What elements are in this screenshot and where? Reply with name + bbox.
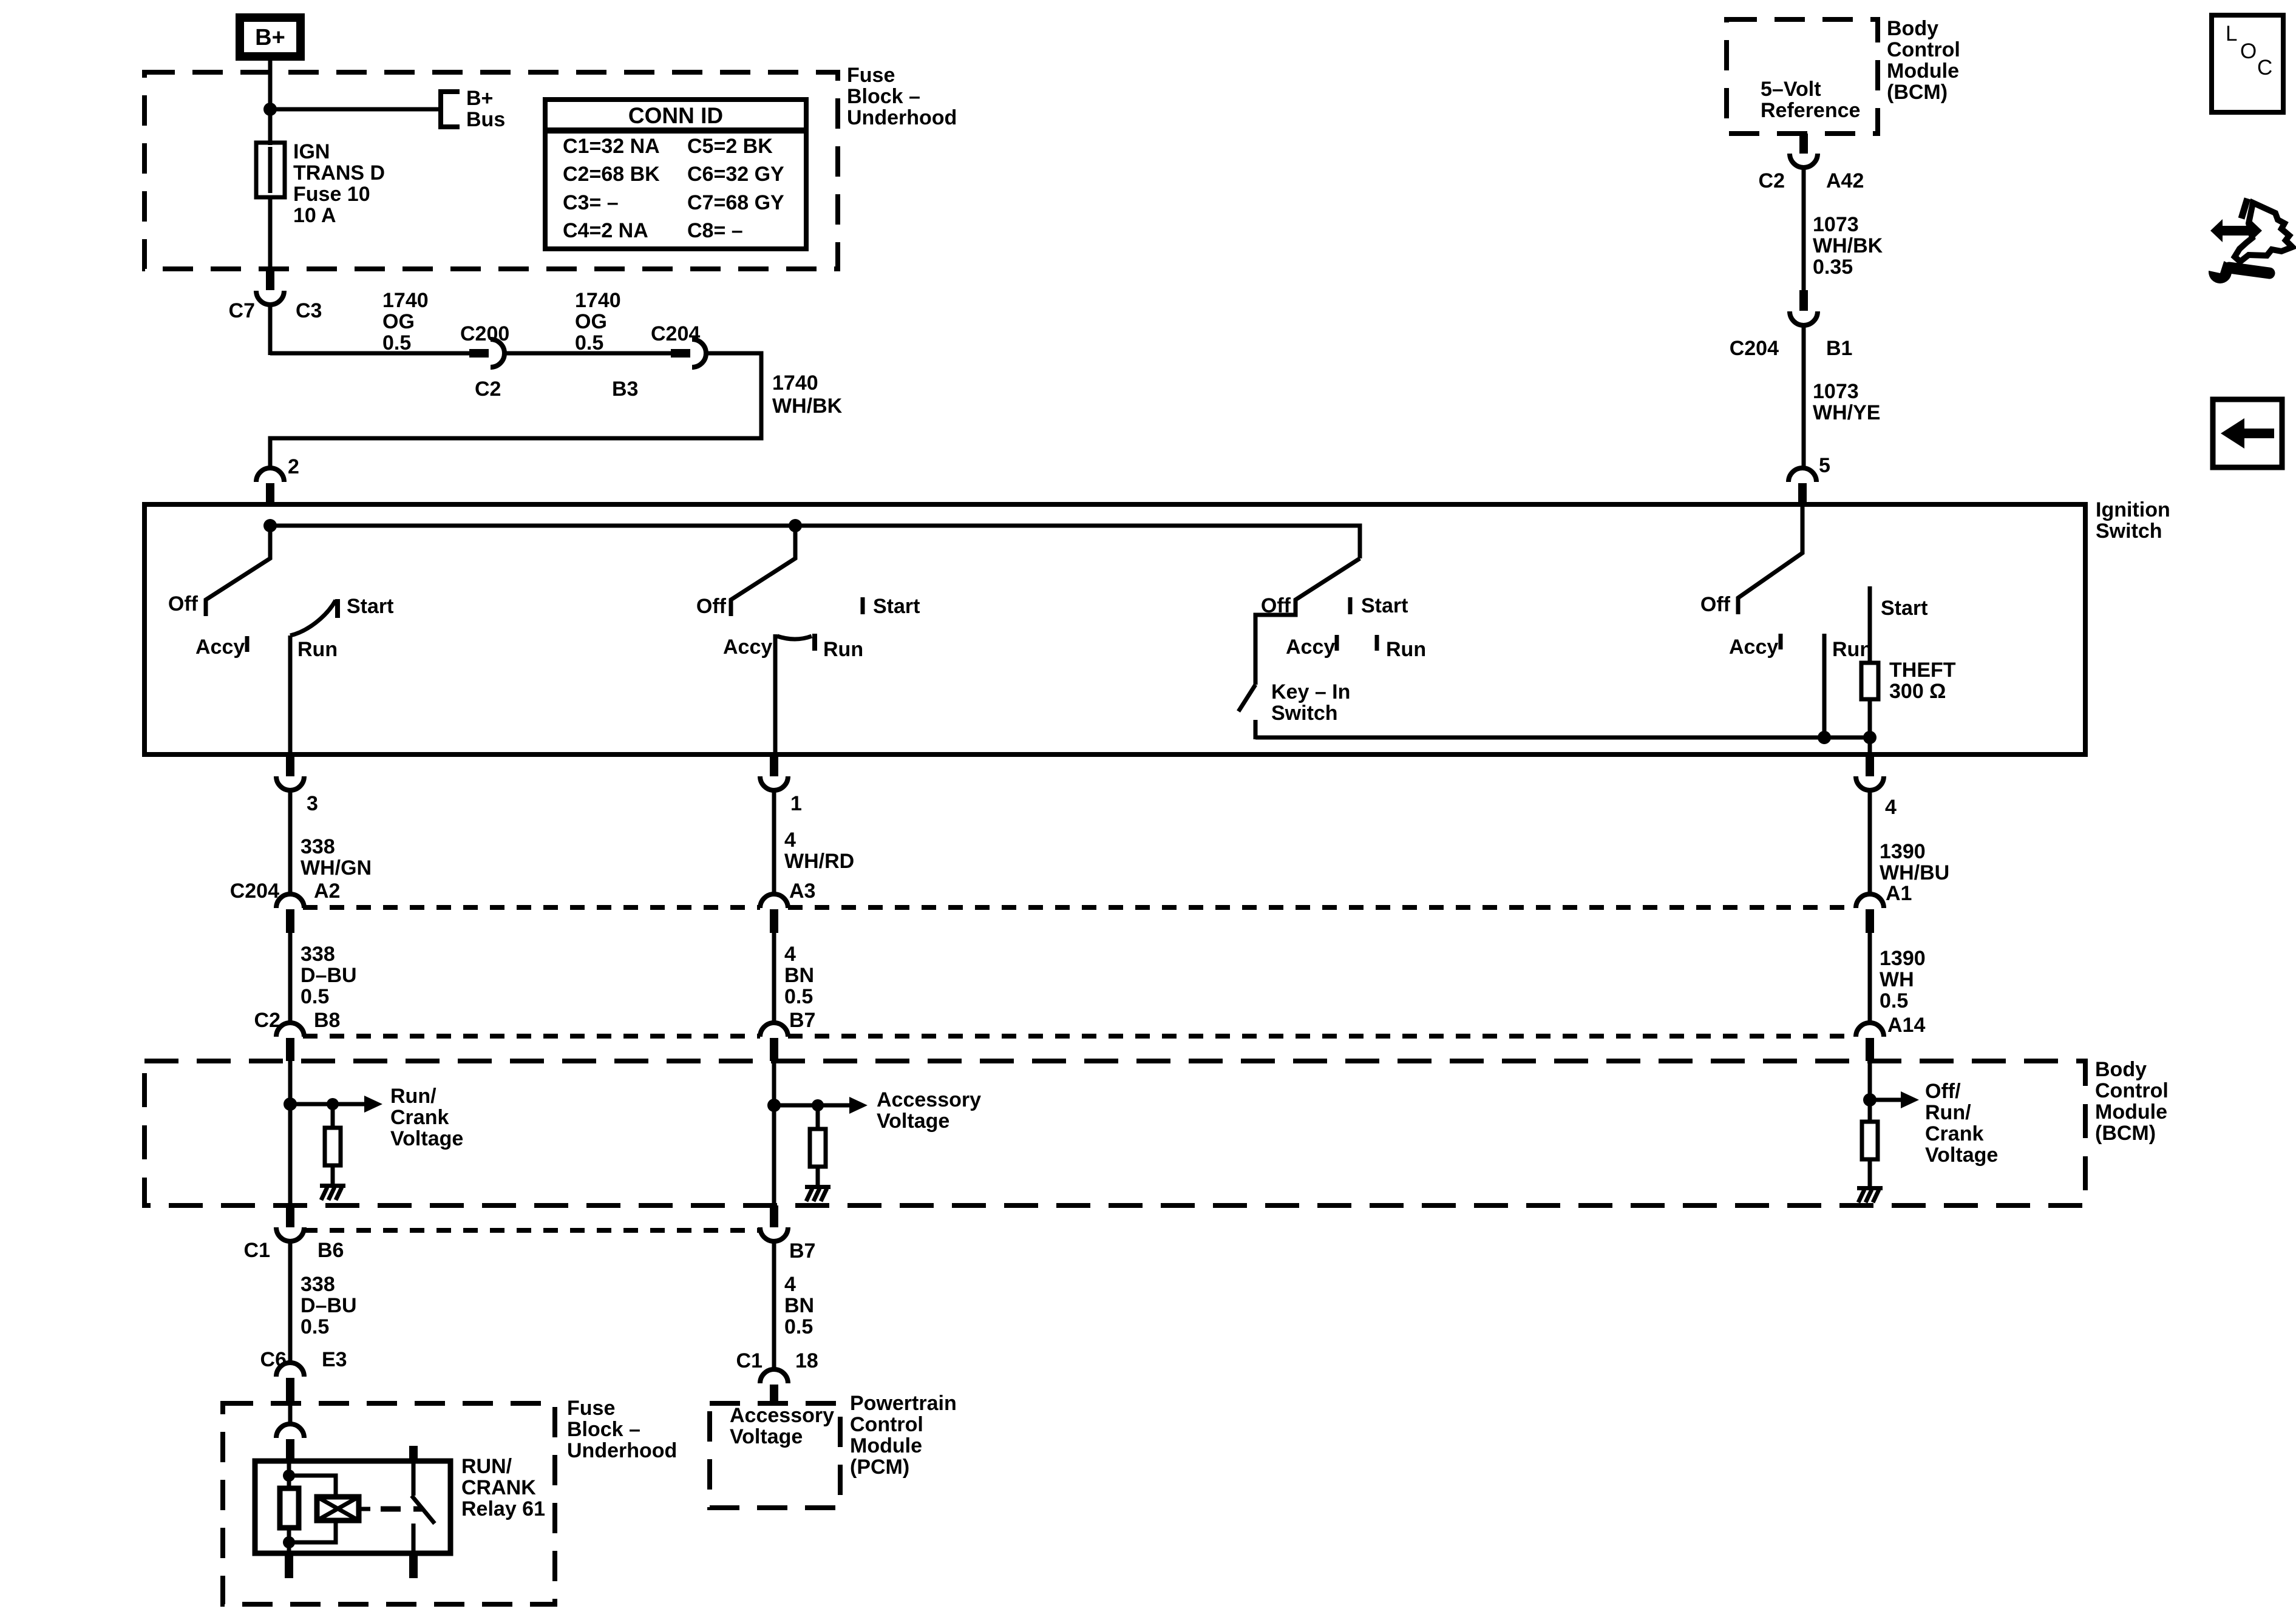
svg-text:Fuse: Fuse	[567, 1397, 615, 1420]
node dot right branch	[1863, 1093, 1877, 1107]
svg-text:Run: Run	[297, 638, 338, 661]
svg-text:0.5: 0.5	[575, 331, 603, 354]
svg-text:1073: 1073	[1813, 213, 1859, 236]
svg-text:D–BU: D–BU	[301, 964, 357, 987]
svg-text:1: 1	[790, 792, 802, 815]
wire 338 WH/GN	[290, 789, 372, 895]
ground BCM right	[1857, 1186, 1883, 1202]
svg-text:Accy: Accy	[723, 636, 772, 659]
SECTION: ignition switch	[144, 498, 2170, 754]
wire into fuse block	[288, 1403, 293, 1426]
connector C200/C2	[460, 322, 509, 401]
relay terminal stub bottom left	[285, 1553, 293, 1578]
svg-text:Crank: Crank	[1925, 1122, 1983, 1145]
wire 1073 WH/YE	[1804, 324, 1880, 469]
svg-text:0.5: 0.5	[301, 1315, 329, 1338]
label: Fuse Block - Underhood	[847, 64, 957, 129]
powertrain control module box (dashed)	[710, 1403, 840, 1508]
svg-text:Off: Off	[696, 595, 727, 618]
svg-text:C2: C2	[254, 1009, 280, 1032]
connector C2/A42	[1759, 134, 1864, 192]
svg-text:C8= –: C8= –	[687, 219, 743, 242]
svg-text:B1: B1	[1826, 337, 1852, 360]
svg-text:C2=68 BK: C2=68 BK	[563, 163, 660, 186]
connector C7/C3	[229, 269, 322, 322]
relay switch pole	[412, 1461, 416, 1496]
section 2 Accy output wire	[773, 634, 778, 754]
svg-text:1073: 1073	[1813, 380, 1859, 403]
wire 338 D-BU 0.5	[290, 933, 357, 1024]
wire left column through BCM	[288, 1061, 293, 1205]
svg-text:338: 338	[301, 1273, 335, 1296]
svg-text:A1: A1	[1886, 882, 1912, 905]
svg-text:B+: B+	[255, 25, 285, 50]
svg-text:Module: Module	[1887, 59, 1959, 83]
svg-text:0.35: 0.35	[1813, 256, 1853, 279]
connector B7 lower	[760, 1205, 815, 1263]
wire 1740 WH/BK routing down and left	[270, 353, 761, 469]
connector C6/E3	[260, 1348, 347, 1403]
node dot relay bottom	[283, 1536, 295, 1548]
B+ Bus bar terminal	[438, 87, 505, 131]
svg-text:WH/YE: WH/YE	[1813, 401, 1880, 424]
key-in switch blade	[1238, 680, 1350, 739]
node dot start/rail	[1863, 731, 1877, 744]
wire to C200	[270, 351, 469, 356]
connector B7 upper	[760, 1009, 815, 1061]
node dot middle branch	[767, 1099, 781, 1112]
svg-text:C4=2 NA: C4=2 NA	[563, 219, 648, 242]
SECTION: lower columns	[144, 754, 2169, 1371]
connector line C1 (dashed)	[303, 1228, 760, 1233]
resistor BCM middle	[810, 1105, 826, 1187]
svg-text:1390: 1390	[1880, 840, 1926, 863]
svg-text:WH/BK: WH/BK	[772, 395, 843, 418]
svg-text:Ignition: Ignition	[2096, 498, 2170, 521]
section 4 Run line	[1824, 634, 1872, 737]
svg-text:IGN: IGN	[293, 140, 330, 163]
connector A14	[1856, 1014, 1925, 1061]
hand with wrench icon: hand outline	[2235, 203, 2292, 262]
CONN ID table	[545, 100, 806, 249]
section 1 Start tick	[338, 595, 393, 618]
connector line C204 (dashed)	[303, 905, 1856, 910]
svg-text:C200: C200	[460, 322, 509, 345]
label 1740 OG 0.5 (right)	[575, 289, 621, 354]
label: Body Control Module (BCM) right	[2095, 1058, 2169, 1145]
svg-text:Run: Run	[823, 638, 863, 661]
svg-text:Off/: Off/	[1925, 1080, 1961, 1103]
node dot section1	[263, 519, 277, 532]
svg-text:(BCM): (BCM)	[1887, 81, 1948, 104]
svg-text:0.5: 0.5	[382, 331, 411, 354]
svg-text:4: 4	[1885, 796, 1897, 819]
connector line C2 (dashed)	[303, 1034, 1856, 1039]
svg-text:Module: Module	[850, 1434, 922, 1457]
svg-text:Accy: Accy	[1286, 636, 1335, 659]
section 4 Accy tick	[1729, 634, 1781, 659]
svg-text:B7: B7	[789, 1009, 815, 1032]
svg-text:Underhood: Underhood	[847, 106, 957, 129]
wire rail to pin 4	[1868, 737, 1872, 754]
SECTION: bottom	[223, 1348, 957, 1604]
svg-text:B3: B3	[612, 378, 638, 401]
relay resistor	[280, 1488, 299, 1528]
relay switch lower contact	[412, 1524, 416, 1553]
node dot left branch	[284, 1097, 297, 1111]
wire 1390 WH/BU	[1870, 789, 1949, 895]
svg-text:Bus: Bus	[466, 108, 505, 131]
relay terminal stub bottom right	[409, 1553, 418, 1578]
hand with wrench icon: thumb stroke	[2241, 198, 2247, 219]
label: Powertrain Control Module (PCM)	[850, 1392, 957, 1479]
connector C204/B1	[1730, 290, 1853, 360]
svg-text:Start: Start	[1881, 597, 1927, 620]
svg-text:C7=68 GY: C7=68 GY	[687, 191, 784, 214]
svg-text:Accessory: Accessory	[877, 1088, 981, 1111]
connector 5 into ignition switch	[1788, 454, 1830, 506]
svg-text:C5=2 BK: C5=2 BK	[687, 135, 773, 158]
relay coil (box with X)	[317, 1497, 359, 1520]
svg-text:Accy: Accy	[1729, 636, 1778, 659]
ground BCM middle	[805, 1185, 830, 1201]
fuse block underhood box 2 (dashed)	[223, 1403, 555, 1604]
svg-text:5: 5	[1819, 454, 1830, 477]
svg-text:Block –: Block –	[567, 1418, 640, 1441]
svg-text:1390: 1390	[1880, 947, 1926, 970]
svg-text:4: 4	[784, 829, 796, 852]
svg-text:WH/BU: WH/BU	[1880, 861, 1949, 884]
connector 2 into ignition switch	[256, 455, 299, 506]
svg-text:B7: B7	[789, 1239, 815, 1263]
node dot relay top	[283, 1470, 295, 1482]
body control module box (dashed)	[144, 1061, 2085, 1205]
node dot section2	[789, 519, 802, 532]
label 1740 WH/BK	[772, 371, 843, 418]
svg-text:Relay 61: Relay 61	[461, 1497, 545, 1520]
wire 4 WH/RD	[774, 789, 854, 895]
svg-text:Fuse: Fuse	[847, 64, 895, 87]
svg-text:338: 338	[301, 943, 335, 966]
connector 4 below ignition switch	[1856, 754, 1897, 819]
svg-text:Fuse 10: Fuse 10	[293, 183, 370, 206]
coil to contact dashed link	[359, 1507, 423, 1511]
svg-text:Start: Start	[347, 595, 393, 618]
svg-text:Control: Control	[1887, 38, 1960, 61]
connector 3 below ignition switch	[276, 754, 318, 815]
label: RUN/CRANK Relay 61	[461, 1455, 545, 1520]
key-in output wire across	[1255, 736, 1870, 740]
section 3 Run tick	[1377, 635, 1426, 661]
svg-text:C6=32 GY: C6=32 GY	[687, 163, 784, 186]
fuse block underhood box (dashed)	[144, 72, 838, 269]
svg-text:C6: C6	[260, 1348, 287, 1371]
svg-text:Block –: Block –	[847, 85, 920, 108]
label: Accessory Voltage (PCM)	[730, 1404, 834, 1448]
section 1 Run output wire	[288, 636, 293, 754]
svg-text:Control: Control	[2095, 1079, 2169, 1102]
svg-text:CRANK: CRANK	[461, 1476, 536, 1499]
relay switch blade	[412, 1496, 435, 1524]
svg-text:WH/BK: WH/BK	[1813, 234, 1883, 257]
B+ battery terminal box	[240, 18, 301, 56]
svg-text:Accessory: Accessory	[730, 1404, 834, 1427]
svg-text:C204: C204	[651, 322, 700, 345]
LOC legend box	[2212, 15, 2283, 112]
wire down from C3	[268, 303, 273, 355]
SECTION: top-left feed	[144, 18, 957, 506]
resistor BCM left	[325, 1104, 341, 1185]
svg-text:L: L	[2226, 22, 2237, 46]
svg-text:O: O	[2240, 39, 2257, 63]
svg-text:4: 4	[784, 1273, 796, 1296]
svg-text:WH/RD: WH/RD	[784, 850, 854, 873]
svg-text:C2: C2	[1759, 169, 1785, 192]
resistor BCM right	[1862, 1122, 1878, 1188]
svg-text:(PCM): (PCM)	[850, 1456, 909, 1479]
RUN/CRANK relay 61 box	[255, 1461, 450, 1553]
section 2 Run tick	[815, 634, 863, 661]
hand with wrench icon: double arrow	[2210, 219, 2262, 242]
label: Fuse Block - Underhood 2	[567, 1397, 677, 1462]
svg-text:3: 3	[307, 792, 318, 815]
section 3 Start tick	[1350, 594, 1408, 617]
svg-text:OG: OG	[575, 310, 607, 333]
wire 338 D-BU 0.5 lower	[290, 1240, 357, 1364]
svg-text:Switch: Switch	[1271, 702, 1338, 725]
off/run/crank voltage tap arrow	[1870, 1080, 1998, 1167]
svg-text:C7: C7	[229, 299, 255, 322]
section 1 Accy tick	[195, 636, 247, 659]
section 2 Start tick	[863, 595, 920, 618]
svg-text:10 A: 10 A	[293, 204, 336, 227]
svg-text:Switch: Switch	[2096, 520, 2162, 543]
svg-text:Run/: Run/	[390, 1085, 436, 1108]
svg-text:A3: A3	[789, 880, 815, 903]
svg-text:RUN/: RUN/	[461, 1455, 512, 1478]
svg-text:Powertrain: Powertrain	[850, 1392, 957, 1415]
svg-text:A2: A2	[314, 880, 340, 903]
svg-text:B6: B6	[318, 1239, 344, 1262]
svg-text:0.5: 0.5	[1880, 989, 1908, 1012]
wire 4 BN 0.5	[774, 933, 814, 1024]
svg-text:B8: B8	[314, 1009, 340, 1032]
svg-text:Voltage: Voltage	[877, 1110, 949, 1133]
svg-text:Run/: Run/	[1925, 1101, 1971, 1124]
svg-text:A14: A14	[1887, 1014, 1925, 1037]
svg-text:BN: BN	[784, 964, 814, 987]
svg-text:C3= –: C3= –	[563, 191, 619, 214]
svg-text:Module: Module	[2095, 1100, 2167, 1124]
svg-text:1740: 1740	[772, 371, 818, 395]
switch section 1 wiper to Off	[168, 526, 270, 616]
svg-text:5–Volt: 5–Volt	[1761, 78, 1821, 101]
connector C204/B3	[612, 322, 706, 401]
svg-text:B+: B+	[466, 87, 493, 110]
back arrow box	[2213, 399, 2282, 467]
wire theft to bottom rail	[1868, 699, 1872, 737]
section 1 Run-Start bridge curve	[290, 600, 338, 661]
wire right column into BCM	[1868, 1061, 1872, 1122]
body control module 5-volt reference box (dashed)	[1727, 19, 1878, 134]
label: Body Control Module (BCM)	[1887, 17, 1960, 104]
svg-text:Body: Body	[2095, 1058, 2147, 1081]
connector C1/18	[736, 1349, 818, 1403]
svg-text:Accy: Accy	[195, 636, 245, 659]
wire middle column through BCM	[772, 1061, 776, 1205]
svg-text:Start: Start	[873, 595, 920, 618]
ignition switch box	[144, 504, 2085, 754]
svg-text:300 Ω: 300 Ω	[1889, 680, 1946, 703]
wire B+ down	[268, 56, 273, 145]
svg-text:D–BU: D–BU	[301, 1294, 357, 1317]
svg-text:C204: C204	[230, 880, 279, 903]
svg-text:C1=32 NA: C1=32 NA	[563, 135, 660, 158]
wire fuse to block edge	[268, 197, 273, 269]
wire C2 to C204	[503, 351, 671, 356]
svg-text:Off: Off	[1700, 593, 1731, 616]
svg-text:Crank: Crank	[390, 1106, 449, 1129]
bus wire inside switch	[270, 526, 1360, 558]
accessory voltage tap arrow	[774, 1088, 981, 1133]
section 4 Start line	[1870, 586, 1927, 663]
wire 1390 WH 0.5	[1870, 933, 1926, 1024]
svg-text:1740: 1740	[382, 289, 429, 312]
svg-text:Voltage: Voltage	[1925, 1144, 1998, 1167]
svg-text:Off: Off	[168, 592, 199, 615]
svg-text:CONN ID: CONN ID	[628, 103, 723, 128]
node dot run/rail	[1818, 731, 1831, 744]
SECTION: icons	[2203, 15, 2292, 467]
svg-text:Voltage: Voltage	[390, 1127, 463, 1150]
svg-text:C1: C1	[244, 1239, 270, 1262]
SECTION: right column	[1727, 17, 1960, 506]
node junction dot	[263, 103, 277, 116]
label: Ignition Switch	[2096, 498, 2170, 543]
svg-text:Underhood: Underhood	[567, 1439, 677, 1462]
svg-text:Control: Control	[850, 1413, 923, 1436]
svg-text:0.5: 0.5	[301, 985, 329, 1008]
connector C2/B8	[254, 1009, 341, 1061]
svg-text:(BCM): (BCM)	[2095, 1122, 2156, 1145]
relay resistor lower wire	[287, 1528, 291, 1553]
switch section 4 wiper to Off	[1700, 504, 1802, 616]
svg-text:BN: BN	[784, 1294, 814, 1317]
svg-text:Reference: Reference	[1761, 99, 1860, 122]
svg-text:4: 4	[784, 943, 796, 966]
svg-text:2: 2	[288, 455, 299, 478]
run/crank voltage tap arrow	[290, 1085, 463, 1150]
label: 5-Volt Reference	[1761, 78, 1860, 122]
svg-text:WH/GN: WH/GN	[301, 856, 372, 880]
svg-text:OG: OG	[382, 310, 415, 333]
svg-text:Start: Start	[1361, 594, 1408, 617]
svg-text:C: C	[2257, 56, 2272, 80]
connector C1/B6	[244, 1205, 344, 1262]
relay socket connector	[276, 1424, 304, 1461]
ground BCM left	[320, 1184, 345, 1200]
svg-text:TRANS D: TRANS D	[293, 161, 385, 185]
label 1740 OG 0.5 (left)	[382, 289, 429, 354]
svg-text:0.5: 0.5	[784, 1315, 813, 1338]
switch section 3 wiper to Off (key-in)	[1255, 558, 1360, 685]
wire to B+ Bus	[270, 107, 439, 112]
connector 1 below ignition switch	[760, 754, 802, 815]
wire 1073 WH/BK	[1804, 166, 1883, 291]
fuse IGN TRANS D Fuse 10 10 A	[256, 140, 385, 227]
svg-text:Key – In: Key – In	[1271, 680, 1350, 703]
svg-text:0.5: 0.5	[784, 985, 813, 1008]
svg-text:338: 338	[301, 835, 335, 858]
svg-text:C1: C1	[736, 1349, 763, 1372]
svg-text:C2: C2	[475, 378, 501, 401]
svg-text:Body: Body	[1887, 17, 1938, 40]
switch section 2 wiper to Off	[696, 526, 795, 618]
relay coil branch wires	[289, 1476, 336, 1497]
svg-text:Run: Run	[1386, 638, 1426, 661]
svg-text:C204: C204	[1730, 337, 1779, 360]
section 3 Accy tick	[1286, 635, 1337, 659]
svg-text:E3: E3	[322, 1348, 347, 1371]
svg-text:C3: C3	[296, 299, 322, 322]
connector A3	[760, 880, 815, 933]
svg-text:THEFT: THEFT	[1889, 659, 1956, 682]
resistor THEFT 300 ohm	[1861, 659, 1956, 703]
wire 4 BN 0.5 lower	[774, 1240, 814, 1371]
svg-text:Run: Run	[1832, 638, 1872, 661]
section 2 Accy post and bridge to Run	[723, 636, 812, 659]
hand with wrench icon: wrench	[2203, 256, 2269, 283]
connector C204/A2	[230, 880, 341, 933]
svg-text:A42: A42	[1826, 169, 1864, 192]
svg-text:Off: Off	[1261, 594, 1291, 617]
connector A1	[1856, 882, 1912, 933]
relay terminal stub top right	[409, 1446, 418, 1461]
relay coil feed wire	[287, 1461, 291, 1488]
svg-text:1740: 1740	[575, 289, 621, 312]
svg-text:Voltage: Voltage	[730, 1425, 803, 1448]
svg-text:18: 18	[795, 1349, 818, 1372]
svg-text:WH: WH	[1880, 968, 1914, 991]
